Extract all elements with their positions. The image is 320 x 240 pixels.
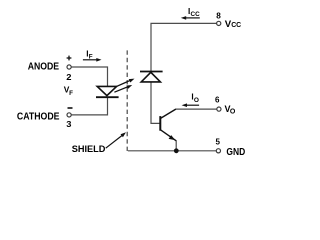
svg-text:6: 6 <box>215 95 220 104</box>
svg-text:O: O <box>230 108 236 115</box>
svg-text:5: 5 <box>215 138 220 147</box>
svg-text:GND: GND <box>226 147 245 158</box>
svg-text:F: F <box>69 90 73 97</box>
svg-text:CC: CC <box>191 11 201 18</box>
svg-text:ANODE: ANODE <box>28 62 60 73</box>
svg-text:CC: CC <box>231 20 242 29</box>
svg-text:CATHODE: CATHODE <box>17 110 60 122</box>
svg-text:8: 8 <box>216 12 221 21</box>
svg-text:2: 2 <box>66 73 72 82</box>
svg-text:F: F <box>89 54 93 61</box>
svg-text:3: 3 <box>66 120 72 129</box>
svg-text:SHIELD: SHIELD <box>72 143 106 154</box>
svg-text:O: O <box>194 97 199 104</box>
